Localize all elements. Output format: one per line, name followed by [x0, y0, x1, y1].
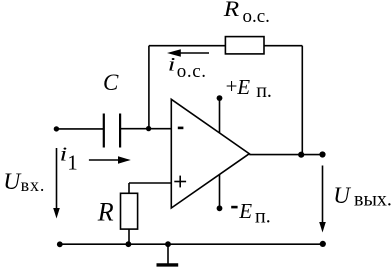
wire positive supply [219, 98, 221, 133]
node output feedback junction [298, 152, 304, 158]
node output terminal [319, 151, 325, 157]
node rail ground junction [165, 241, 171, 247]
wire output [249, 154, 322, 156]
op-amp plus input mark [174, 176, 186, 188]
wire feedback top left [149, 45, 226, 47]
svg-text:R: R [223, 0, 240, 22]
label i1 [60, 144, 78, 174]
resistor R [121, 193, 138, 229]
op-amp U1 [171, 99, 249, 208]
svg-text:R: R [97, 197, 114, 226]
svg-text:U: U [3, 169, 22, 195]
wire feedback right vertical [301, 46, 303, 155]
node negative supply [217, 205, 223, 211]
node input junction [54, 126, 59, 131]
wire feedback left vertical [148, 46, 150, 129]
node rail right [320, 241, 326, 247]
wire negative supply [219, 174, 221, 208]
arrow io.c. left [167, 49, 209, 56]
ground [157, 244, 179, 265]
node positive supply [217, 95, 223, 101]
arrow Uvyx down [319, 166, 326, 233]
svg-text:1: 1 [67, 151, 78, 175]
capacitor C [104, 114, 120, 148]
node rail under R [125, 241, 131, 247]
node rail left [57, 241, 63, 247]
wire noninverting input horizontal [129, 182, 171, 184]
op-amp minus input mark [178, 127, 184, 130]
svg-text:E: E [238, 199, 252, 223]
svg-text:+: + [226, 74, 238, 98]
label Ro.c. [223, 0, 270, 27]
wire feedback top right [264, 45, 302, 47]
wire resistor R to ground rail [128, 229, 130, 244]
label io.c. [168, 55, 207, 83]
wire capacitor to inverting input [121, 128, 171, 130]
svg-text:п.: п. [255, 206, 271, 228]
arrow i1 right [89, 156, 131, 163]
label -Ep. [231, 199, 271, 228]
svg-text:о.с.: о.с. [177, 61, 207, 82]
svg-text:i: i [60, 144, 68, 165]
svg-text:п.: п. [256, 80, 272, 102]
label +Ep. [226, 74, 272, 102]
label Uvx. [3, 169, 45, 195]
wire noninverting input vertical [128, 183, 130, 193]
resistor Ro.c. [225, 37, 264, 54]
wire input node to capacitor [56, 128, 103, 130]
svg-text:i: i [168, 55, 176, 76]
svg-text:C: C [103, 70, 119, 95]
svg-text:о.с.: о.с. [243, 6, 270, 27]
arrow Uvx down [53, 148, 60, 219]
svg-text:U: U [333, 183, 351, 208]
svg-text:вх.: вх. [21, 175, 46, 195]
svg-text:вых.: вых. [354, 189, 392, 211]
label Uvyx. [333, 183, 392, 210]
node inverting input junction [146, 126, 151, 131]
svg-text:E: E [236, 75, 250, 99]
wire bottom rail [58, 243, 324, 245]
